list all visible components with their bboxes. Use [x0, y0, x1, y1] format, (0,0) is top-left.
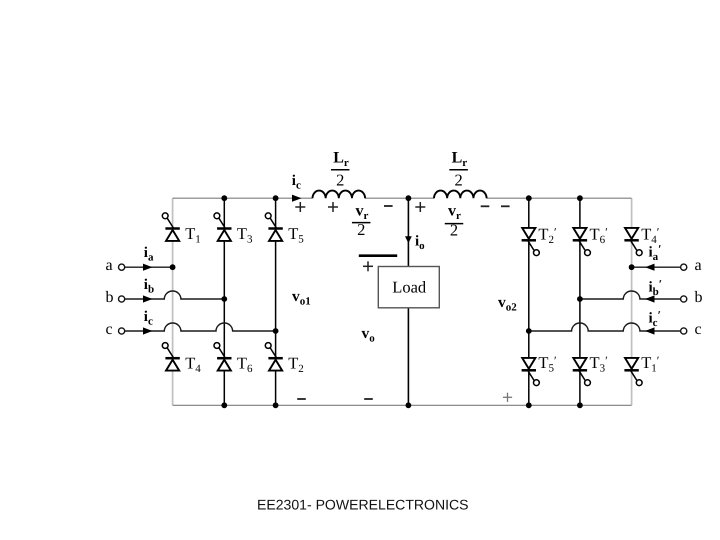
svg-text:ic: ic [144, 309, 153, 328]
svg-text:T3: T3 [237, 224, 253, 246]
svg-text:vo: vo [362, 325, 376, 345]
svg-text:vr: vr [356, 202, 369, 222]
svg-text:2: 2 [450, 221, 458, 240]
svg-text:T2: T2 [288, 353, 304, 375]
svg-text:a: a [695, 257, 702, 274]
svg-text:ic: ic [292, 173, 301, 192]
svg-text:Lr: Lr [452, 149, 468, 169]
svg-text:c: c [695, 321, 702, 338]
svg-text:ia: ia [144, 245, 154, 264]
svg-text:T1: T1 [185, 224, 201, 246]
svg-text:2: 2 [454, 170, 462, 189]
svg-text:T3′: T3′ [590, 353, 609, 375]
svg-text:b: b [106, 289, 114, 306]
svg-text:vo1: vo1 [292, 288, 311, 308]
svg-text:EE2301- POWERELECTRONICS: EE2301- POWERELECTRONICS [257, 496, 469, 512]
svg-text:T1′: T1′ [641, 353, 660, 375]
svg-text:ib: ib [144, 277, 154, 296]
svg-text:Lr: Lr [333, 149, 349, 169]
svg-text:T5′: T5′ [538, 353, 557, 375]
svg-text:2: 2 [357, 220, 365, 239]
svg-text:io: io [415, 234, 425, 253]
svg-text:T4: T4 [185, 353, 201, 375]
svg-text:ic′: ic′ [649, 308, 661, 329]
svg-text:b: b [695, 289, 703, 306]
svg-text:T6′: T6′ [590, 224, 609, 246]
svg-text:vo2: vo2 [498, 294, 517, 314]
svg-text:vr: vr [448, 202, 461, 222]
svg-text:T6: T6 [237, 353, 253, 375]
svg-text:a: a [106, 257, 113, 274]
svg-text:Load: Load [392, 277, 427, 296]
svg-text:T2′: T2′ [538, 224, 557, 246]
svg-text:T4′: T4′ [641, 224, 660, 246]
svg-text:2: 2 [336, 170, 344, 189]
svg-text:T5: T5 [288, 224, 304, 246]
svg-text:c: c [106, 321, 113, 338]
svg-text:ib′: ib′ [649, 277, 663, 298]
